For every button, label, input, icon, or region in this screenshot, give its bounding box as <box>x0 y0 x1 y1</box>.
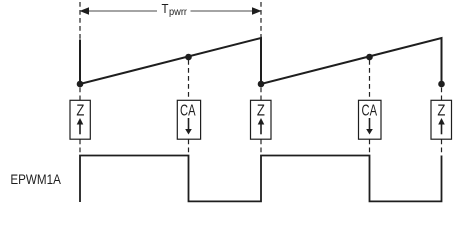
svg-text:pwrr: pwrr <box>169 6 187 18</box>
svg-text:Z: Z <box>437 102 445 119</box>
svg-text:CA: CA <box>362 102 378 119</box>
svg-text:Z: Z <box>257 102 265 119</box>
svg-text:T: T <box>162 1 169 16</box>
svg-text:CA: CA <box>180 102 196 119</box>
svg-text:Z: Z <box>76 102 84 119</box>
svg-text:EPWM1A: EPWM1A <box>10 172 61 187</box>
